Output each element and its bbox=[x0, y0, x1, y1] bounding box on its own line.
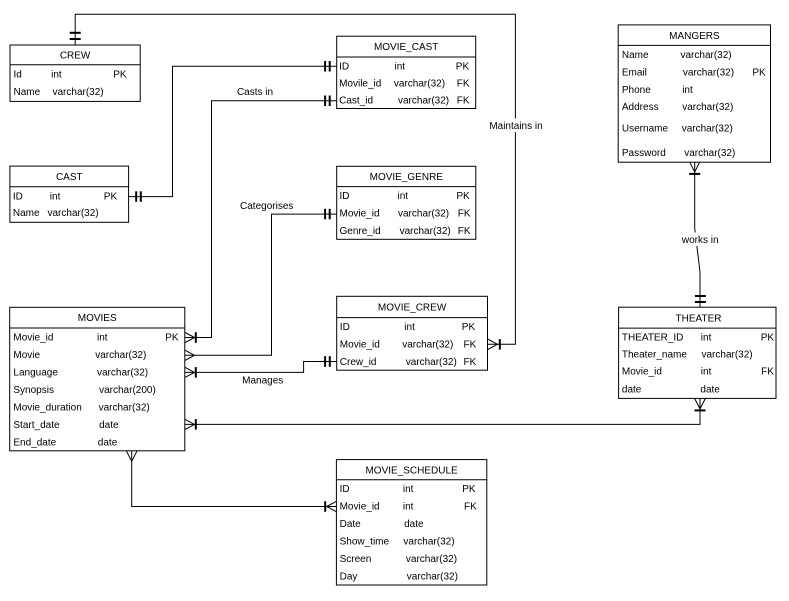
svg-text:varchar(32): varchar(32) bbox=[53, 87, 104, 98]
svg-text:Id: Id bbox=[14, 69, 22, 80]
svg-text:Day: Day bbox=[340, 572, 358, 583]
marker many (crow foot + bar) at MOVIES Movie_id row bbox=[185, 332, 196, 343]
svg-text:Movie_id: Movie_id bbox=[622, 367, 662, 378]
svg-text:varchar(32): varchar(32) bbox=[398, 96, 449, 107]
svg-text:varchar(32): varchar(32) bbox=[99, 403, 150, 414]
marker many-one (crow foot + bar) at MOVIE_CREW right bbox=[488, 339, 500, 350]
svg-text:Movie: Movie bbox=[13, 350, 40, 361]
svg-text:PK: PK bbox=[752, 67, 766, 78]
svg-text:PK: PK bbox=[113, 69, 127, 80]
svg-text:varchar(32): varchar(32) bbox=[398, 209, 449, 220]
svg-text:CREW: CREW bbox=[60, 51, 91, 62]
svg-text:Genre_id: Genre_id bbox=[340, 226, 381, 237]
svg-text:FK: FK bbox=[464, 340, 477, 351]
wire MOVIES to MOVIE_CAST (Casts in) bbox=[185, 101, 337, 338]
svg-text:Crew_id: Crew_id bbox=[340, 357, 377, 368]
svg-text:Start_date: Start_date bbox=[13, 420, 60, 431]
svg-text:Cast_id: Cast_id bbox=[339, 96, 373, 107]
svg-text:PK: PK bbox=[462, 322, 476, 333]
svg-text:ID: ID bbox=[339, 61, 349, 72]
svg-text:varchar(32): varchar(32) bbox=[683, 67, 734, 78]
svg-text:varchar(32): varchar(32) bbox=[682, 102, 733, 113]
marker one (double bar) at MOVIE_CREW Crew_id row bbox=[325, 356, 330, 367]
wire MOVIES to MOVIE_SCHEDULE bbox=[132, 451, 337, 507]
wire MOVIES to MOVIE_GENRE (Categorises) bbox=[185, 214, 337, 355]
svg-text:FK: FK bbox=[458, 226, 471, 237]
svg-text:MOVIE_SCHEDULE: MOVIE_SCHEDULE bbox=[365, 465, 458, 476]
svg-text:PK: PK bbox=[761, 332, 775, 343]
svg-text:FK: FK bbox=[761, 367, 774, 378]
label Manages bbox=[242, 375, 283, 386]
marker many (crow foot) at MOVIES Movie row bbox=[185, 350, 195, 360]
marker one (double bar) above CREW bbox=[70, 33, 81, 39]
entity CAST bbox=[10, 166, 129, 222]
svg-text:PK: PK bbox=[165, 333, 179, 344]
svg-text:CAST: CAST bbox=[56, 172, 83, 183]
wire MOVIES to THEATER bbox=[185, 398, 700, 424]
svg-text:varchar(200): varchar(200) bbox=[99, 385, 156, 396]
svg-text:int: int bbox=[395, 61, 406, 72]
svg-text:PK: PK bbox=[462, 484, 476, 495]
svg-text:int: int bbox=[701, 332, 712, 343]
svg-text:varchar(32): varchar(32) bbox=[95, 350, 146, 361]
svg-text:MOVIE_GENRE: MOVIE_GENRE bbox=[370, 172, 444, 183]
entity MOVIE_SCHEDULE bbox=[336, 460, 486, 585]
svg-text:Movie_id: Movie_id bbox=[340, 209, 380, 220]
svg-text:FK: FK bbox=[457, 79, 470, 90]
svg-text:MANGERS: MANGERS bbox=[669, 31, 720, 42]
wire CAST to MOVIE_CAST bbox=[129, 66, 337, 196]
svg-text:MOVIES: MOVIES bbox=[78, 313, 117, 324]
svg-text:int: int bbox=[51, 69, 62, 80]
svg-text:Casts in: Casts in bbox=[237, 87, 273, 98]
svg-text:Username: Username bbox=[622, 124, 669, 135]
svg-text:varchar(32): varchar(32) bbox=[48, 208, 99, 219]
svg-text:works in: works in bbox=[681, 235, 719, 246]
svg-text:varchar(32): varchar(32) bbox=[402, 340, 453, 351]
svg-text:Movie_duration: Movie_duration bbox=[13, 403, 81, 414]
svg-text:Movie_id: Movie_id bbox=[340, 340, 380, 351]
svg-text:ID: ID bbox=[340, 191, 350, 202]
svg-text:ID: ID bbox=[13, 192, 23, 203]
svg-text:Movile_id: Movile_id bbox=[339, 79, 381, 90]
svg-text:varchar(32): varchar(32) bbox=[403, 537, 454, 548]
svg-text:varchar(32): varchar(32) bbox=[681, 50, 732, 61]
svg-text:int: int bbox=[404, 322, 415, 333]
svg-text:varchar(32): varchar(32) bbox=[394, 79, 445, 90]
svg-text:date: date bbox=[99, 420, 119, 431]
entity CREW bbox=[10, 45, 140, 101]
svg-text:varchar(32): varchar(32) bbox=[406, 554, 457, 565]
svg-text:int: int bbox=[97, 333, 108, 344]
svg-text:THEATER: THEATER bbox=[676, 313, 722, 324]
marker one (double bar) at MOVIE_GENRE Movie_id row bbox=[325, 209, 330, 220]
entity THEATER bbox=[619, 307, 776, 398]
svg-text:Date: Date bbox=[340, 519, 362, 530]
svg-text:int: int bbox=[403, 484, 414, 495]
svg-text:ID: ID bbox=[340, 484, 350, 495]
svg-text:PK: PK bbox=[456, 191, 470, 202]
svg-text:Password: Password bbox=[622, 148, 666, 159]
wire CREW to MOVIE_CREW (Maintains in) bbox=[75, 14, 515, 344]
svg-text:THEATER_ID: THEATER_ID bbox=[622, 332, 684, 343]
svg-text:PK: PK bbox=[456, 61, 470, 72]
svg-text:Show_time: Show_time bbox=[340, 537, 390, 548]
svg-text:int: int bbox=[398, 191, 409, 202]
svg-text:varchar(32): varchar(32) bbox=[702, 350, 753, 361]
entity MOVIE_CREW bbox=[337, 296, 488, 370]
svg-text:Movie_id: Movie_id bbox=[340, 502, 380, 513]
marker many-one (bar + crow foot) at MOVIE_SCHEDULE Movie_id row bbox=[325, 501, 336, 512]
svg-text:FK: FK bbox=[458, 209, 471, 220]
svg-text:varchar(32): varchar(32) bbox=[400, 226, 451, 237]
svg-text:varchar(32): varchar(32) bbox=[97, 368, 148, 379]
wire MANGERS to THEATER (works in) bbox=[695, 162, 700, 307]
svg-text:date: date bbox=[98, 438, 118, 449]
svg-text:varchar(32): varchar(32) bbox=[684, 148, 735, 159]
entity MOVIE_CAST bbox=[337, 36, 476, 108]
svg-text:date: date bbox=[404, 519, 424, 530]
marker many-one (crow foot + bar) below THEATER bbox=[695, 398, 706, 410]
svg-text:Language: Language bbox=[13, 368, 58, 379]
svg-text:Name: Name bbox=[622, 50, 649, 61]
marker many (crow foot) below MOVIES bbox=[126, 451, 137, 462]
svg-text:PK: PK bbox=[104, 192, 118, 203]
svg-text:varchar(32): varchar(32) bbox=[406, 357, 457, 368]
svg-text:Theater_name: Theater_name bbox=[622, 350, 687, 361]
marker many-one (crow foot + bar) below MANGERS bbox=[689, 162, 700, 174]
label Categorises bbox=[240, 201, 293, 212]
svg-text:FK: FK bbox=[464, 502, 477, 513]
marker one (double bar) at MOVIE_CAST Cast_id row bbox=[325, 96, 330, 107]
svg-text:End_date: End_date bbox=[13, 438, 56, 449]
svg-text:FK: FK bbox=[464, 357, 477, 368]
svg-text:Name: Name bbox=[13, 208, 40, 219]
svg-text:Email: Email bbox=[622, 67, 647, 78]
label works in bbox=[680, 233, 720, 247]
svg-text:date: date bbox=[700, 384, 720, 395]
entity MANGERS bbox=[618, 25, 770, 162]
svg-text:int: int bbox=[701, 367, 712, 378]
svg-text:varchar(32): varchar(32) bbox=[407, 572, 458, 583]
label Casts in bbox=[237, 87, 273, 98]
svg-text:MOVIE_CREW: MOVIE_CREW bbox=[378, 303, 447, 314]
wire MOVIES to MOVIE_CREW (Manages) bbox=[185, 362, 337, 373]
svg-text:int: int bbox=[682, 85, 693, 96]
marker many (crow foot + bar) at MOVIES Start_date row bbox=[185, 419, 196, 430]
svg-text:ID: ID bbox=[340, 322, 350, 333]
svg-text:MOVIE_CAST: MOVIE_CAST bbox=[374, 42, 438, 53]
svg-text:int: int bbox=[403, 502, 414, 513]
svg-text:Manages: Manages bbox=[242, 375, 283, 386]
marker one (double bar) at MOVIE_CAST ID row bbox=[325, 61, 330, 72]
marker one (double bar) at CAST right bbox=[136, 191, 141, 202]
entity MOVIES bbox=[10, 307, 185, 451]
svg-text:int: int bbox=[50, 192, 61, 203]
svg-text:Name: Name bbox=[14, 87, 41, 98]
svg-text:FK: FK bbox=[457, 96, 470, 107]
svg-text:Maintains in: Maintains in bbox=[489, 121, 542, 132]
marker many (crow foot + bar) at MOVIES Language row bbox=[185, 367, 196, 378]
svg-text:Categorises: Categorises bbox=[240, 201, 293, 212]
svg-text:Address: Address bbox=[622, 102, 659, 113]
svg-text:Phone: Phone bbox=[622, 85, 651, 96]
svg-text:Screen: Screen bbox=[340, 554, 372, 565]
entity MOVIE_GENRE bbox=[337, 166, 476, 239]
marker one (double bar) above THEATER bbox=[695, 296, 706, 302]
label Maintains in bbox=[488, 119, 544, 133]
svg-text:date: date bbox=[622, 384, 642, 395]
svg-text:Movie_id: Movie_id bbox=[13, 333, 53, 344]
svg-text:varchar(32): varchar(32) bbox=[682, 124, 733, 135]
svg-text:Synopsis: Synopsis bbox=[13, 385, 54, 396]
